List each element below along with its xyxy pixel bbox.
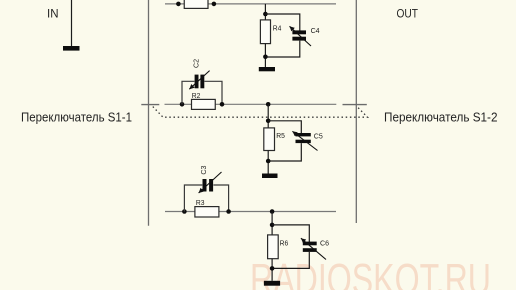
resistor R4 — [260, 20, 270, 44]
node dot row3 R6 branch — [270, 209, 275, 214]
node dot R5 top — [266, 119, 271, 124]
switch S1-1 arm — [141, 104, 159, 106]
svg-text:C6: C6 — [320, 238, 329, 247]
node dot row1 right — [212, 2, 217, 7]
node dot row2 C2-right — [220, 102, 225, 107]
svg-text:OUT: OUT — [397, 7, 419, 21]
wire C4 bottom — [265, 41, 299, 57]
svg-text:R5: R5 — [276, 131, 285, 140]
svg-text:R4: R4 — [273, 23, 282, 32]
wire switch bus S1-1 — [148, 0, 150, 226]
switch linkage dotted — [153, 107, 368, 118]
node dot row2 R5 branch — [266, 102, 271, 107]
node dot R6 top — [270, 223, 275, 228]
terminal IN bar — [63, 46, 80, 51]
ground G3 — [264, 281, 280, 286]
svg-text:C4: C4 — [311, 26, 320, 35]
node dot R5 bottom — [266, 159, 271, 164]
wire R5 bottom lead — [267, 151, 269, 174]
wire row2 — [165, 103, 337, 105]
capacitor C3 arrow — [199, 172, 222, 193]
node dot row3 C3-right — [226, 209, 231, 214]
capacitor C2 bracket — [182, 81, 222, 104]
resistor R3 — [195, 207, 219, 217]
capacitor C5 arrow — [292, 131, 317, 150]
node dot row3 C3-left — [182, 209, 187, 214]
wire R6 branch drop — [271, 212, 273, 235]
wire IN lead — [71, 0, 73, 47]
resistor R6 — [268, 235, 279, 259]
wire C5 bottom — [268, 143, 301, 161]
wire row3 — [165, 211, 336, 213]
svg-text:R2: R2 — [192, 91, 201, 100]
capacitor C2 plates — [195, 75, 199, 89]
wire C6 bottom — [272, 252, 309, 269]
svg-text:IN: IN — [47, 7, 59, 21]
capacitor C4 arrow — [290, 26, 312, 46]
capacitor C4 plates — [292, 30, 306, 34]
ground G1 — [259, 67, 275, 71]
switch S1-2 arm — [343, 104, 367, 106]
capacitor C2 arrow — [189, 71, 209, 90]
wire to C4 top — [265, 14, 299, 31]
capacitor C6 plates — [303, 242, 317, 246]
svg-text:C3: C3 — [199, 166, 208, 175]
node dot R6 bottom — [270, 266, 275, 271]
node dot row1 left — [176, 2, 181, 7]
resistor R1 — [184, 0, 208, 8]
node dot row2 C2-left — [180, 102, 185, 107]
capacitor C3 plates — [203, 179, 207, 192]
svg-text:C5: C5 — [314, 132, 323, 141]
wire to C5 top — [268, 121, 301, 134]
wire to C6 top — [272, 225, 309, 242]
svg-text:C2: C2 — [192, 59, 201, 68]
capacitor C5 plates — [296, 133, 311, 136]
wire R4 bottom lead — [264, 44, 266, 67]
node dot R4 top — [263, 12, 268, 17]
svg-text:RADIOSKOT.RU: RADIOSKOT.RU — [250, 255, 491, 290]
wire R4 branch drop — [264, 4, 266, 20]
wire row1 — [165, 3, 336, 5]
svg-text:R3: R3 — [196, 198, 205, 207]
resistor R5 — [264, 128, 275, 151]
wire switch bus S1-2 — [355, 0, 357, 223]
svg-text:R6: R6 — [280, 238, 289, 247]
ground G2 — [262, 174, 278, 179]
svg-text:Переключатель S1-1: Переключатель S1-1 — [21, 111, 132, 125]
capacitor C3 bracket — [184, 185, 228, 212]
resistor R2 — [192, 99, 216, 109]
capacitor C6 arrow — [301, 238, 326, 259]
wire R5 branch drop — [267, 104, 269, 128]
node dot R4 bottom — [263, 55, 268, 60]
svg-text:Переключатель S1-2: Переключатель S1-2 — [384, 111, 498, 125]
wire R6 bottom lead — [271, 259, 273, 281]
